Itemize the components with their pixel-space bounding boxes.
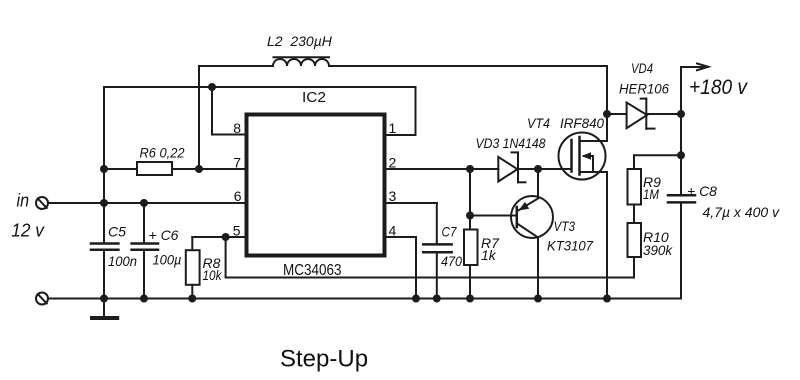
svg-text:100µ: 100µ bbox=[153, 252, 182, 268]
wire: VD4 cathode to output node bbox=[646, 113, 681, 115]
svg-text:6: 6 bbox=[234, 188, 242, 204]
svg-text:HER106: HER106 bbox=[619, 81, 669, 97]
node: ground pin4 bbox=[412, 295, 420, 303]
wire: pin1 loop vertical bbox=[415, 87, 417, 135]
ground bus bbox=[48, 298, 681, 300]
MOSFET VT4 bbox=[559, 133, 608, 180]
transistor VT3 bbox=[511, 196, 553, 238]
resistor R10 bbox=[628, 223, 642, 257]
node: ground VT3 bbox=[534, 295, 542, 303]
svg-text:+ C6: + C6 bbox=[149, 227, 179, 243]
wire: R8 top lead bbox=[191, 237, 193, 250]
wire: feedback row to R10 bottom bbox=[226, 277, 634, 279]
svg-text:in: in bbox=[17, 191, 30, 211]
wire: MOSFET source vertical to ground bus bbox=[606, 172, 608, 299]
node: output bbox=[677, 110, 685, 118]
wire: VT3 collector top to VD3 cathode node bbox=[537, 169, 539, 198]
ground symbol bbox=[92, 299, 117, 319]
wire: input row from terminal to pin 6 bbox=[48, 202, 247, 204]
svg-text:1: 1 bbox=[389, 120, 397, 136]
svg-text:1k: 1k bbox=[481, 247, 497, 263]
capacitor C5 bbox=[91, 244, 118, 250]
wire: pin 2 row to VD3 anode bbox=[385, 168, 499, 170]
wire: pin 4 lead bbox=[385, 236, 417, 238]
wire: left vertical x104 from y87 to C5 top bbox=[103, 87, 105, 244]
svg-text:C5: C5 bbox=[108, 224, 126, 240]
node: R6 right bbox=[195, 165, 203, 173]
node: ground C5 bbox=[100, 295, 108, 303]
svg-text:Step-Up: Step-Up bbox=[280, 346, 368, 373]
node: input row C6 bbox=[140, 199, 148, 207]
resistor R8 bbox=[186, 250, 200, 285]
diode VD3 bbox=[498, 152, 525, 182]
svg-text:1M: 1M bbox=[643, 186, 659, 202]
svg-text:VD3 1N4148: VD3 1N4148 bbox=[476, 135, 546, 151]
wire: top row horizontal left of L2 coil bbox=[199, 65, 273, 67]
svg-text:5: 5 bbox=[233, 223, 241, 239]
node: ground C7 bbox=[433, 295, 441, 303]
node: VT3 base bbox=[466, 212, 474, 220]
svg-text:+180 v: +180 v bbox=[689, 75, 748, 99]
node: input row C5 bbox=[100, 199, 108, 207]
capacitor C7 bbox=[423, 244, 451, 252]
node: ground R7 bbox=[466, 295, 474, 303]
svg-text:IRF840: IRF840 bbox=[560, 115, 604, 131]
input terminal circle bbox=[36, 197, 48, 209]
wire: VD3 anode node down to VT3 base node bbox=[469, 169, 471, 216]
node: R9 branch bbox=[677, 151, 685, 159]
wire: top row from L2 left corner down to R6 right node bbox=[198, 66, 200, 169]
output arrow bbox=[681, 64, 708, 71]
svg-text:VT3: VT3 bbox=[554, 218, 576, 234]
node: VD4 anode bbox=[603, 110, 611, 118]
wire: VT3 base wire bbox=[470, 215, 517, 217]
IC2 box U1 bbox=[247, 115, 385, 256]
svg-text:MC34063: MC34063 bbox=[283, 262, 342, 279]
wire: C5 bottom to ground bus bbox=[103, 250, 105, 299]
wire: pin 1 lead bbox=[385, 134, 416, 136]
wire: top row from L2 to VD4 branch corner bbox=[329, 65, 607, 67]
wire: vertical from y87 node down to pin 8 row bbox=[211, 87, 213, 135]
svg-text:VD4: VD4 bbox=[631, 60, 653, 76]
svg-text:VT4: VT4 bbox=[527, 115, 550, 131]
svg-text:10k: 10k bbox=[203, 267, 223, 283]
wire: pin5 vertical down to feedback row bbox=[225, 237, 227, 278]
wire: R9 branch horizontal bbox=[634, 154, 681, 156]
svg-text:IC2: IC2 bbox=[302, 89, 326, 106]
wire: vertical from top row down to VD4 anode node bbox=[606, 66, 608, 114]
wire: MOSFET drain vertical bbox=[606, 114, 608, 141]
svg-text:390k: 390k bbox=[643, 242, 673, 258]
wire: R7 top lead bbox=[469, 216, 471, 230]
wire: pin 5 row bbox=[192, 236, 246, 238]
inductor L2 bbox=[273, 57, 329, 66]
wire: R7 bottom to ground bus bbox=[469, 265, 471, 299]
wire: VD3 cathode to MOSFET gate bbox=[518, 168, 572, 170]
wire: pin4 vertical to ground bus bbox=[415, 237, 417, 299]
wire: C7 bottom to ground bus bbox=[436, 252, 438, 298]
node: ground C6 bbox=[140, 295, 148, 303]
svg-text:R6 0,22: R6 0,22 bbox=[140, 145, 185, 161]
svg-text:12 v: 12 v bbox=[11, 220, 44, 240]
svg-text:7: 7 bbox=[233, 155, 241, 171]
resistor R7 bbox=[464, 230, 478, 266]
wire: output vertical x681 bbox=[680, 67, 682, 195]
node: VD3 anode bbox=[466, 165, 474, 173]
svg-text:100n: 100n bbox=[108, 253, 137, 269]
svg-text:KT3107: KT3107 bbox=[547, 238, 594, 254]
wire: R8 bottom to ground bus bbox=[191, 285, 193, 299]
wire: R10 bottom lead bbox=[633, 257, 635, 278]
svg-text:470: 470 bbox=[441, 253, 462, 269]
node: VD3 cathode bbox=[534, 165, 542, 173]
wire: pin 8 lead bbox=[212, 134, 247, 136]
wire: R9 top lead bbox=[633, 155, 635, 169]
diode VD4 bbox=[627, 99, 655, 129]
svg-text:8: 8 bbox=[233, 120, 241, 136]
wire: C8 bottom to ground bus corner bbox=[680, 202, 682, 298]
wire: pin 7 row left of R6 bbox=[104, 168, 137, 170]
svg-text:+ C8: + C8 bbox=[687, 183, 717, 199]
wire: C6 top lead bbox=[143, 203, 145, 244]
capacitor C6 bbox=[132, 244, 158, 250]
wire: VT3 emitter bottom to ground bus bbox=[537, 238, 539, 299]
wire: y87 bus from left vertical to pin1 loop bbox=[104, 86, 416, 88]
wire: pin 3 lead bbox=[385, 202, 437, 204]
wire: pin 7 lead from R6 to IC bbox=[172, 168, 247, 170]
node: y87 junction bbox=[208, 83, 216, 91]
wire: C6 bottom to ground bus bbox=[143, 250, 145, 299]
capacitor C8 bbox=[668, 195, 695, 202]
wire: VD4 anode lead bbox=[607, 113, 627, 115]
lower terminal circle bbox=[36, 293, 48, 305]
wire: pin3 vertical to C7 bbox=[436, 203, 438, 244]
svg-text:C7: C7 bbox=[442, 224, 458, 240]
node: pin 5 bbox=[222, 233, 230, 241]
node: ground R8 bbox=[188, 295, 196, 303]
svg-text:4,7µ x 400 v: 4,7µ x 400 v bbox=[703, 204, 781, 220]
node: ground VT4 source bbox=[603, 295, 611, 303]
node: R6 left bbox=[100, 165, 108, 173]
svg-text:3: 3 bbox=[389, 188, 397, 204]
svg-text:L2 230µH: L2 230µH bbox=[267, 33, 333, 49]
resistor R6 bbox=[137, 162, 172, 175]
resistor R9 bbox=[628, 169, 642, 205]
wire: R9-R10 link bbox=[633, 205, 635, 224]
